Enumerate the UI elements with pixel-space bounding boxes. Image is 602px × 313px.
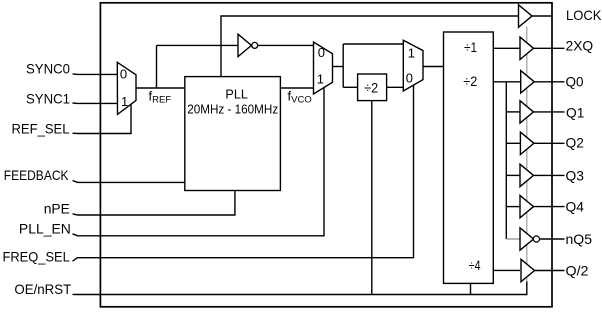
wire OE/nRST [73, 282, 527, 295]
wire nQ5 output [540, 238, 565, 240]
wire Q1 output [534, 111, 565, 113]
mux M2 (PLL bypass) [314, 42, 333, 94]
svg-text:÷4: ÷4 [469, 257, 481, 273]
buffer B2 2XQ [520, 37, 534, 59]
wire SYNC0 [73, 73, 118, 76]
svg-text:nPE: nPE [44, 201, 70, 217]
buffer B3 Q0 [521, 71, 535, 93]
wire bus to Q1 buffer [506, 111, 520, 113]
node A riser [342, 44, 344, 87]
wire node A to divider D1 [343, 86, 357, 88]
svg-text:Q/2: Q/2 [566, 262, 589, 278]
wire node A to mux M3 input 1 [343, 43, 403, 45]
wire FREQ_SEL to mux M3 select [73, 85, 414, 261]
svg-text:FEEDBACK: FEEDBACK [4, 167, 69, 183]
inverter U1 [238, 34, 251, 56]
wire mux M1 output (fREF) to PLL [136, 87, 185, 89]
svg-text:REF_SEL: REF_SEL [12, 120, 70, 136]
wire mux M2 output to node A [333, 66, 344, 68]
wire divide-by-2 to Q0 buffer [493, 81, 520, 83]
svg-text:20MHz - 160MHz: 20MHz - 160MHz [187, 102, 278, 117]
buffer B8 bubble [533, 236, 539, 242]
wire Q3 output [534, 174, 565, 176]
wire bus to Q3 buffer [506, 174, 520, 176]
wire LOCK from PLL top [221, 16, 519, 77]
wire 2XQ output [534, 47, 565, 49]
wire REF_SEL to mux M1 select [73, 104, 132, 133]
wire divide-by-4 to Q/2 buffer [493, 269, 520, 271]
wire Q/2 output [535, 270, 565, 272]
svg-text:LOCK: LOCK [566, 7, 602, 23]
svg-text:1: 1 [121, 94, 128, 109]
wire bus to Q2 buffer [506, 142, 520, 144]
svg-text:Q3: Q3 [566, 167, 585, 183]
svg-text:FREQ_SEL: FREQ_SEL [3, 249, 70, 265]
buffer B4 Q1 [520, 101, 534, 123]
wire LOCK output [532, 15, 552, 17]
buffer B1 LOCK [519, 5, 533, 27]
wire Q bus riser [505, 82, 507, 239]
wire mux M3 output to divider bank [423, 66, 444, 68]
wire bus to nQ5 buffer (light) [506, 238, 520, 240]
svg-text:PLL_EN: PLL_EN [19, 221, 71, 237]
wire U3 reset riser [470, 283, 472, 294]
svg-text:Q2: Q2 [566, 134, 585, 150]
mux M3 (frequency select) [403, 40, 423, 91]
svg-text:0: 0 [406, 70, 413, 85]
wire divider D1 output to mux M3 input 0 [386, 86, 403, 88]
wire PLL fVCO output to mux M2 input 1 [280, 87, 314, 89]
svg-text:PLL: PLL [225, 86, 248, 101]
wire inverter output to mux M2 input 0 [258, 44, 314, 46]
inverter U1 bubble [252, 42, 258, 48]
svg-text:SYNC0: SYNC0 [26, 61, 70, 77]
svg-text:÷2: ÷2 [463, 73, 477, 89]
wire FEEDBACK to PLL [73, 181, 185, 183]
svg-text:SYNC1: SYNC1 [26, 90, 70, 106]
buffer B5 Q2 [520, 132, 534, 154]
svg-text:0: 0 [120, 67, 127, 82]
wire divide-by-1 to 2XQ buffer [493, 47, 520, 49]
wire Q4 output [534, 206, 565, 208]
svg-text:÷2: ÷2 [364, 79, 378, 95]
svg-text:0: 0 [318, 45, 325, 60]
divider D1 (/2) [358, 74, 387, 101]
wire SYNC1 [73, 102, 118, 104]
buffer B7 Q4 [520, 195, 534, 217]
divider bank U3 [444, 32, 494, 283]
wire Q2 output [534, 142, 565, 144]
PLL block U2 [185, 77, 281, 191]
wire fREF to inverter input [157, 44, 239, 46]
svg-text:Q0: Q0 [566, 74, 584, 90]
wire PLL_EN to mux M2 select [73, 88, 325, 236]
svg-text:Q1: Q1 [566, 104, 585, 120]
wire divider D1 reset riser [371, 100, 373, 294]
wire bus to Q4 buffer [506, 206, 520, 208]
svg-text:OE/nRST: OE/nRST [14, 281, 71, 297]
svg-text:nQ5: nQ5 [566, 231, 593, 247]
svg-text:1: 1 [408, 45, 415, 60]
svg-text:1: 1 [317, 71, 324, 86]
svg-text:Q4: Q4 [566, 199, 585, 215]
wire nPE to PLL bottom [73, 191, 235, 216]
svg-text:2XQ: 2XQ [566, 37, 594, 53]
buffer B8 nQ5 (inverting) [520, 228, 534, 250]
wire output-enable gray riser [526, 27, 528, 282]
buffer B9 Q/2 [521, 259, 535, 281]
mux M1 (reference select) [117, 62, 136, 114]
buffer B6 Q3 [520, 164, 534, 186]
node fREF riser [156, 45, 158, 88]
svg-text:÷1: ÷1 [464, 39, 477, 55]
outer box [100, 3, 552, 307]
wire Q0 output [534, 81, 564, 83]
